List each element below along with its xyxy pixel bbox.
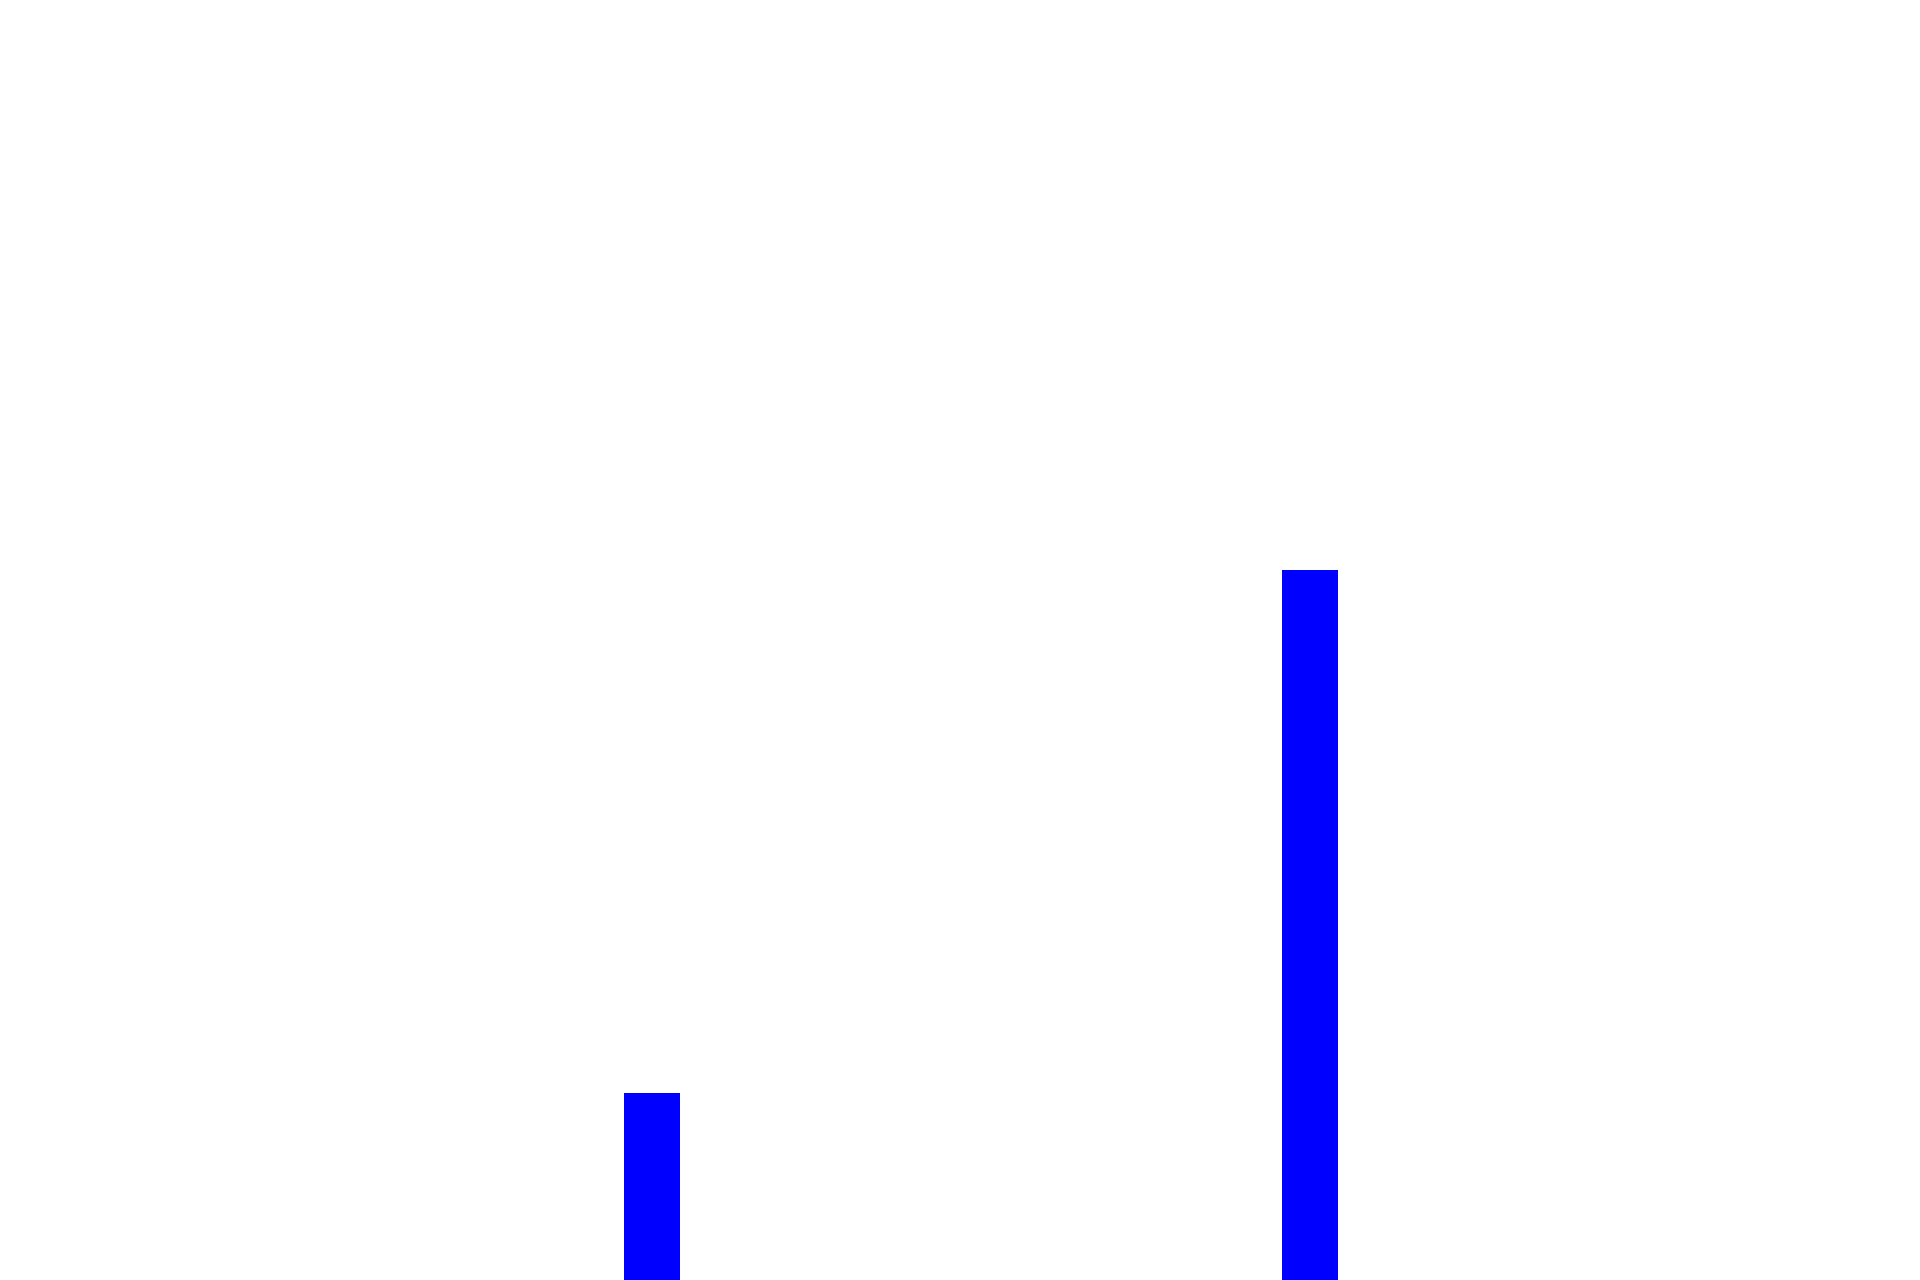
bar 1 (left, short) [624, 1093, 680, 1280]
bar 2 (right, tall) [1282, 570, 1338, 1280]
